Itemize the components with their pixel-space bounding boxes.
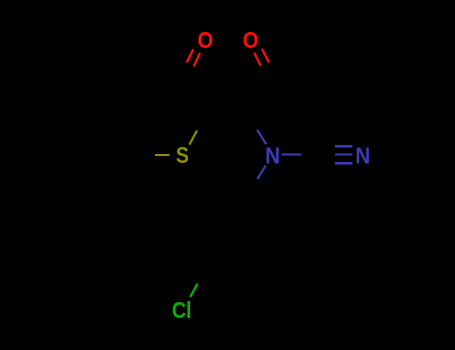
nitrile nitrogen N <box>355 142 370 168</box>
svg-text:N: N <box>355 142 370 168</box>
S-C2 bond (S-half, olive) <box>189 131 197 145</box>
N-CN bond (N-half, blue) <box>281 153 301 155</box>
N-aryl bond (N-half, blue) <box>258 165 266 179</box>
N-C3 bond (N-half, blue) <box>257 130 266 145</box>
sulfur atom S (methylthio) <box>176 142 189 168</box>
svg-text:O: O <box>243 27 259 53</box>
ketone oxygen O (left carbonyl) <box>198 27 214 53</box>
svg-text:Cl: Cl <box>172 297 192 323</box>
svg-text:N: N <box>265 142 280 168</box>
nitrile triple bond C#N (N-half, blue, three lines) <box>335 146 353 163</box>
S-CH3 bond (S-half, olive) <box>155 154 170 156</box>
amine nitrogen N <box>265 142 280 168</box>
chlorine atom Cl <box>172 297 192 323</box>
Cl-aryl bond (Cl-half, green) <box>190 284 198 297</box>
C=O double bond (left carbonyl, O-half, red) <box>187 49 200 66</box>
svg-text:O: O <box>198 27 214 53</box>
ketone oxygen O (right carbonyl) <box>243 27 259 53</box>
C=O double bond (right carbonyl, O-half, red) <box>254 49 269 66</box>
svg-text:S: S <box>176 142 189 168</box>
